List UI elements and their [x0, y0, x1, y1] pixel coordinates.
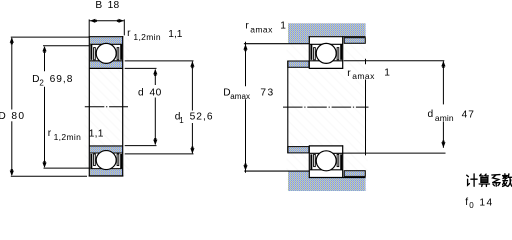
- housing top: [288, 23, 366, 43]
- svg-text:1: 1: [280, 21, 286, 32]
- bearing lower section (mirrored): [89, 146, 123, 175]
- 计: [467, 174, 477, 186]
- svg-text:amin: amin: [435, 113, 454, 123]
- D2 dimension: [43, 45, 89, 47]
- 系: [492, 175, 500, 187]
- bearing upper section (right fig): [309, 37, 343, 68]
- svg-text:d: d: [428, 109, 434, 120]
- svg-text:80: 80: [11, 111, 25, 122]
- bearing outline box: [88, 36, 90, 176]
- svg-text:1,1: 1,1: [168, 29, 182, 40]
- right bearing outline box: [308, 36, 310, 69]
- bottom-right spacer ring: [344, 171, 365, 177]
- svg-text:73: 73: [260, 87, 274, 98]
- svg-text:1,2min: 1,2min: [54, 132, 82, 142]
- svg-text:r: r: [347, 68, 351, 79]
- Damax dimension: [245, 42, 247, 87]
- svg-text:40: 40: [150, 88, 162, 99]
- d1 dimension: [125, 60, 194, 62]
- right axis centerline: [283, 106, 369, 108]
- svg-text:2: 2: [39, 79, 44, 88]
- housing bottom: [288, 171, 366, 191]
- bearing upper section: [89, 37, 123, 68]
- faint hatch: right figure shaft/housing region: [287, 23, 368, 192]
- svg-text:52,6: 52,6: [190, 111, 214, 122]
- svg-text:r: r: [48, 128, 52, 139]
- svg-text:D: D: [0, 111, 6, 122]
- B dimension: [88, 19, 90, 36]
- svg-text:B: B: [95, 0, 102, 11]
- svg-text:14: 14: [479, 197, 493, 208]
- top-right spacer ring: [344, 38, 365, 44]
- axis centerline: [85, 106, 128, 108]
- svg-text:1: 1: [384, 68, 390, 79]
- damin dimension: [442, 61, 444, 104]
- svg-text:47: 47: [462, 109, 475, 120]
- svg-text:r: r: [127, 28, 131, 39]
- svg-text:1: 1: [179, 116, 184, 125]
- svg-text:d: d: [138, 88, 144, 99]
- svg-text:18: 18: [108, 0, 120, 11]
- faint hatch: left figure bore region: [85, 37, 130, 176]
- svg-text:0: 0: [469, 201, 474, 210]
- svg-text:amax: amax: [230, 92, 250, 101]
- 计算系数 (drawn strokes): [467, 174, 512, 187]
- 数: [503, 174, 512, 187]
- svg-text:amax: amax: [250, 25, 273, 35]
- shaft-left spacer ring: [288, 61, 309, 67]
- svg-text:D: D: [32, 74, 39, 85]
- D dimension: [11, 36, 90, 38]
- bottom-left spacer ring: [288, 147, 309, 153]
- bearing lower section (right fig, mirrored): [309, 146, 343, 177]
- svg-text:1,2min: 1,2min: [133, 32, 161, 42]
- d dimension: [125, 67, 157, 69]
- 算: [479, 174, 489, 186]
- svg-text:f: f: [465, 197, 468, 208]
- housing shoulder face lines: [244, 43, 310, 45]
- svg-text:69,8: 69,8: [50, 74, 74, 85]
- svg-text:amax: amax: [352, 71, 375, 81]
- shaft body outline: [287, 61, 289, 154]
- svg-text:r: r: [245, 21, 249, 32]
- svg-text:1,1: 1,1: [89, 129, 104, 140]
